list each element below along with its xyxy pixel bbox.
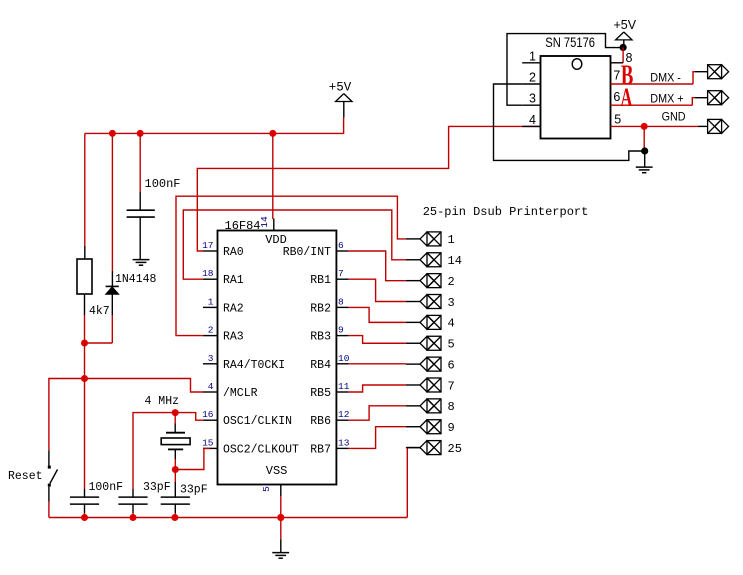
svg-text:3: 3 (529, 92, 536, 106)
svg-text:16: 16 (202, 409, 214, 420)
svg-text:+5V: +5V (614, 18, 637, 32)
svg-text:7: 7 (448, 379, 455, 393)
svg-text:GND: GND (662, 111, 686, 124)
svg-text:7: 7 (338, 268, 344, 279)
svg-text:33pF: 33pF (180, 484, 208, 497)
svg-text:4k7: 4k7 (89, 305, 110, 318)
svg-text:RA4/T0CKI: RA4/T0CKI (223, 359, 285, 372)
svg-text:RB7: RB7 (310, 443, 331, 456)
svg-text:6: 6 (613, 90, 620, 104)
svg-text:11: 11 (338, 381, 350, 392)
svg-text:8: 8 (448, 400, 455, 414)
svg-text:3: 3 (208, 353, 214, 364)
svg-text:2: 2 (448, 275, 455, 289)
svg-text:A: A (621, 83, 633, 112)
svg-text:RB5: RB5 (310, 387, 331, 400)
svg-text:1: 1 (208, 296, 214, 307)
svg-text:RB6: RB6 (310, 415, 331, 428)
svg-text:14: 14 (448, 254, 462, 268)
svg-text:8: 8 (338, 296, 344, 307)
svg-text:4: 4 (529, 113, 536, 127)
svg-text:RB1: RB1 (310, 274, 331, 287)
svg-text:15: 15 (202, 437, 214, 448)
svg-text:9: 9 (338, 325, 344, 336)
svg-text:1N4148: 1N4148 (115, 273, 157, 286)
svg-text:1: 1 (529, 49, 536, 63)
svg-text:SN 75176: SN 75176 (545, 35, 595, 50)
svg-text:RB0/INT: RB0/INT (283, 246, 331, 259)
svg-text:DMX +: DMX + (650, 93, 684, 106)
svg-text:12: 12 (338, 409, 350, 420)
svg-text:Reset: Reset (8, 470, 43, 483)
svg-text:25: 25 (448, 442, 462, 456)
svg-text:9: 9 (448, 421, 455, 435)
svg-text:RA3: RA3 (223, 331, 244, 344)
svg-text:OSC1/CLKIN: OSC1/CLKIN (223, 415, 292, 428)
svg-text:RB4: RB4 (310, 359, 331, 372)
svg-text:7: 7 (613, 69, 620, 83)
svg-text:100nF: 100nF (145, 177, 181, 191)
svg-text:16F84: 16F84 (225, 219, 261, 233)
svg-text:10: 10 (338, 353, 350, 364)
svg-text:6: 6 (338, 240, 344, 251)
svg-text:RB2: RB2 (310, 302, 331, 315)
svg-text:RA0: RA0 (223, 246, 244, 259)
svg-text:18: 18 (202, 268, 214, 279)
svg-text:5: 5 (614, 112, 621, 126)
svg-text:13: 13 (338, 437, 350, 448)
svg-text:6: 6 (448, 358, 455, 372)
svg-text:VSS: VSS (266, 464, 288, 478)
svg-text:3: 3 (448, 296, 455, 310)
svg-text:4: 4 (448, 317, 455, 331)
svg-text:17: 17 (202, 240, 213, 251)
svg-text:1: 1 (448, 233, 455, 247)
svg-text:+5V: +5V (329, 81, 352, 95)
svg-text:VDD: VDD (265, 233, 287, 247)
svg-text:14: 14 (259, 216, 270, 228)
svg-text:DMX -: DMX - (650, 72, 681, 85)
svg-text:25-pin Dsub Printerport: 25-pin Dsub Printerport (423, 205, 589, 219)
svg-text:OSC2/CLKOUT: OSC2/CLKOUT (223, 443, 299, 456)
svg-text:RB3: RB3 (310, 331, 331, 344)
svg-text:RA2: RA2 (223, 302, 244, 315)
svg-text:33pF: 33pF (143, 481, 171, 494)
svg-text:4: 4 (208, 381, 214, 392)
svg-text:2: 2 (208, 325, 214, 336)
svg-text:5: 5 (448, 338, 455, 352)
svg-text:4 MHz: 4 MHz (145, 395, 180, 408)
svg-text:RA1: RA1 (223, 274, 244, 287)
svg-text:2: 2 (529, 71, 536, 85)
svg-text:5: 5 (261, 486, 272, 492)
svg-text:/MCLR: /MCLR (223, 387, 258, 400)
svg-text:100nF: 100nF (89, 481, 124, 494)
